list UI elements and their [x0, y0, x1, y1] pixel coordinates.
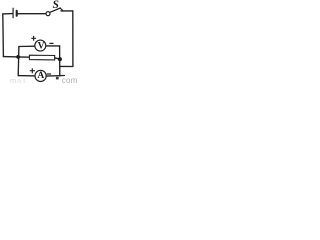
- wire ammeter row left: [18, 75, 35, 77]
- voltmeter plus sign: [32, 37, 36, 39]
- resistor R box: [29, 55, 54, 60]
- wire bridge right to node B: [60, 65, 73, 67]
- battery B1 short plate: [16, 11, 18, 16]
- voltmeter minus sign: [50, 42, 53, 44]
- wire left outer vertical: [2, 14, 5, 57]
- wire top-left: [3, 13, 13, 15]
- wire inner right vertical node B: [59, 46, 61, 76]
- svg-text:com: com: [62, 76, 78, 84]
- wire resistor to node B: [55, 58, 60, 59]
- wire voltmeter row: [19, 45, 35, 47]
- svg-text:V: V: [38, 42, 45, 52]
- wire ammeter row right: [46, 75, 64, 78]
- switch S lever: [50, 8, 61, 12]
- ammeter plus sign: [30, 70, 34, 72]
- wire right outer vertical: [72, 11, 74, 67]
- junction node A dot: [16, 55, 20, 59]
- voltmeter V circle: [35, 40, 46, 51]
- wire switch to top-right corner: [61, 10, 73, 12]
- svg-text:S: S: [53, 0, 59, 11]
- watermark dark blob: [56, 77, 59, 80]
- wire battery to switch: [18, 13, 46, 15]
- svg-text:a t: a t: [17, 76, 26, 84]
- svg-text:m: m: [10, 76, 16, 84]
- svg-text:A: A: [37, 71, 44, 81]
- wire inner left vertical node A: [17, 47, 20, 76]
- ammeter minus sign: [47, 73, 50, 75]
- switch S pivot circle: [46, 12, 50, 16]
- wire resistor row left: [3, 56, 29, 59]
- ammeter A circle: [35, 70, 46, 81]
- battery B1 long plate: [12, 8, 14, 18]
- switch contact joint: [60, 8, 62, 10]
- junction node B dot: [58, 57, 62, 61]
